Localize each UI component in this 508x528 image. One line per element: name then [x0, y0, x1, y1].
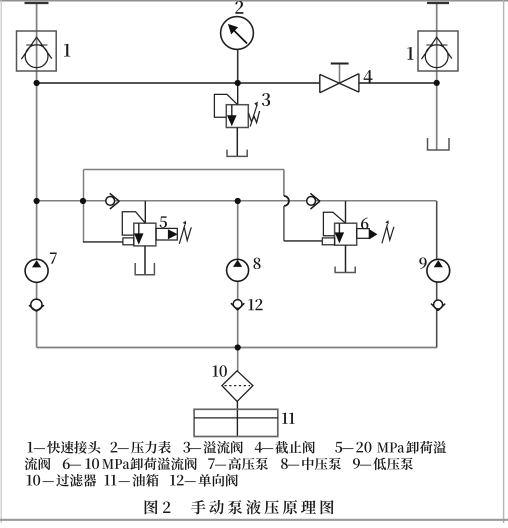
wire middle rail	[37, 200, 437, 202]
label 7 pump	[50, 253, 57, 264]
oil tank 11	[194, 409, 278, 436]
wire pilot line to valve 5	[83, 241, 123, 243]
pump 7	[25, 259, 48, 282]
node A (left trunk / top rail)	[34, 80, 40, 86]
port cap left	[25, 2, 49, 4]
label 12 check valve	[248, 299, 262, 310]
check valve on middle rail right	[307, 193, 320, 209]
wire drop at x284 with crossover hop	[283, 170, 285, 197]
check valve on middle rail left	[106, 193, 120, 209]
label 10 filter	[213, 365, 227, 377]
node D (left trunk / middle rail)	[34, 198, 40, 204]
label 5 valve	[160, 216, 167, 227]
page border top	[0, 0, 508, 2]
wire drop at x83	[83, 170, 85, 242]
pump 8	[227, 259, 249, 281]
tank symbol of valve 6	[335, 245, 355, 272]
label 2 gauge	[235, 1, 243, 14]
wire filter stem	[237, 348, 239, 371]
node E (loop drop / middle rail)	[80, 198, 86, 204]
quick coupler 1 (left)	[17, 31, 57, 71]
relief valve 3	[214, 94, 259, 127]
label 8 pump	[253, 258, 260, 270]
quick coupler 1 (right)	[418, 31, 458, 71]
unloading relief valve 5	[122, 201, 191, 246]
tank symbol of valve 5	[135, 246, 154, 275]
label 6 valve	[361, 218, 368, 230]
label 3 relief valve	[262, 93, 270, 106]
page border right	[503, 0, 505, 523]
wire filter to tank	[236, 401, 238, 436]
check valve below pump 9	[431, 300, 445, 311]
node C (right trunk / top rail)	[434, 80, 440, 86]
pressure gauge 2	[221, 17, 254, 50]
page border left	[0, 0, 2, 523]
wire relief valve 3 stem	[237, 83, 239, 105]
wire left trunk (port P1 to pump 7 to bottom rail)	[36, 3, 38, 348]
check valve below pump 7	[29, 299, 44, 311]
filter 10	[222, 371, 253, 402]
legend line 1	[28, 441, 447, 454]
wire top pressure rail	[37, 82, 437, 84]
page border bottom	[0, 519, 508, 521]
node F (center trunk / middle rail)	[235, 198, 241, 204]
stop valve 4	[320, 64, 359, 93]
wire center trunk (rail to pump 8 to bottom rail)	[237, 201, 239, 348]
pump 9	[427, 259, 450, 282]
tank stub right	[428, 138, 450, 150]
wire right trunk upper (port P2 to plugged tank)	[436, 3, 438, 151]
label 4 stop valve	[364, 70, 373, 83]
port cap right	[427, 2, 449, 4]
label 11 tank	[282, 413, 295, 424]
wire gauge stem	[237, 50, 239, 83]
label 1 right coupler	[407, 47, 413, 60]
legend line 3	[27, 474, 238, 487]
wire upper loop rail	[84, 169, 285, 171]
label 1 left coupler	[64, 44, 70, 57]
wire bottom return rail	[37, 347, 437, 349]
wire pilot line to valve 6	[284, 240, 322, 242]
caption	[145, 500, 334, 515]
label 9 pump	[419, 258, 426, 270]
node B (gauge / top rail)	[235, 80, 241, 86]
check valve 12	[231, 300, 244, 311]
node G (center trunk / bottom rail)	[235, 344, 241, 350]
tank symbol of valve 3	[227, 128, 247, 157]
wire right trunk lower (rail to pump 9 to bottom rail)	[436, 201, 438, 348]
unloading relief valve 6	[322, 201, 394, 245]
legend line 2	[25, 457, 413, 470]
